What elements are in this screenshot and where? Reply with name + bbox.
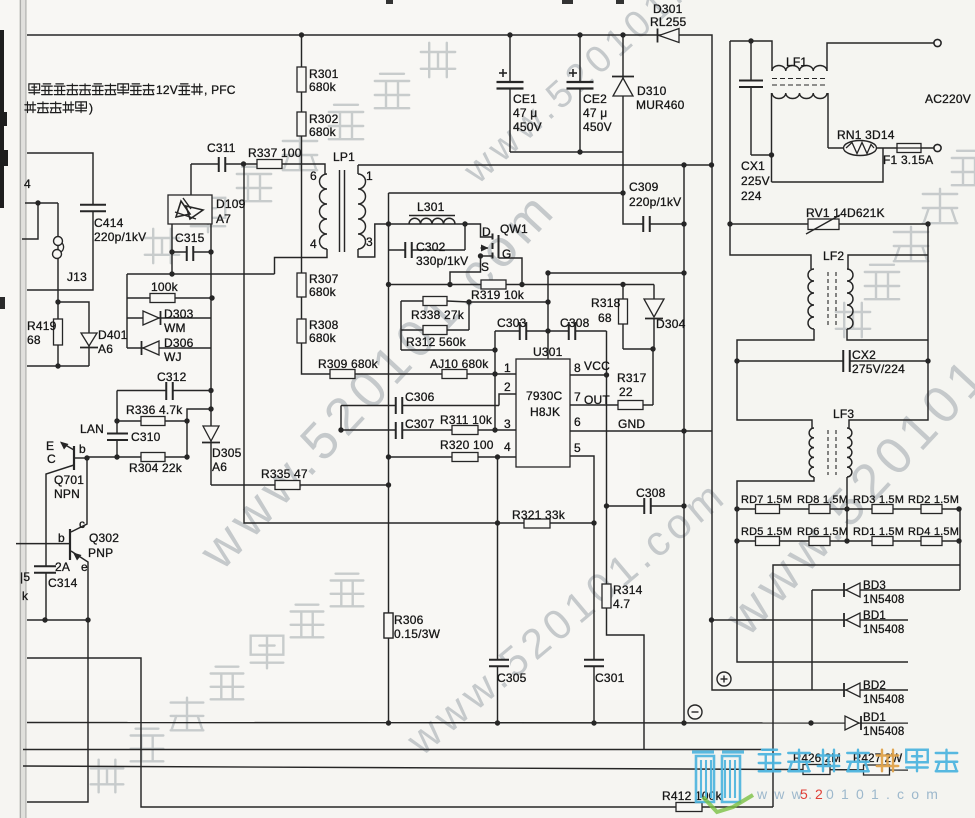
- svg-text:C302: C302: [416, 240, 446, 254]
- svg-text:Q701: Q701: [54, 473, 84, 487]
- svg-text:680k: 680k: [309, 285, 337, 299]
- svg-text:R312 560k: R312 560k: [406, 335, 467, 349]
- svg-text:0.15/3W: 0.15/3W: [394, 627, 441, 641]
- svg-text:RD7 1.5M: RD7 1.5M: [741, 494, 792, 506]
- svg-text:R301: R301: [309, 67, 339, 81]
- svg-text:E: E: [46, 439, 54, 453]
- svg-text:RD4 1.5M: RD4 1.5M: [908, 526, 959, 538]
- svg-text:PNP: PNP: [88, 546, 113, 560]
- svg-text:D303: D303: [164, 307, 194, 321]
- svg-text:AC220V: AC220V: [925, 92, 971, 106]
- svg-text:D401: D401: [98, 328, 128, 342]
- svg-text:A6: A6: [98, 342, 113, 356]
- svg-text:4: 4: [24, 177, 31, 191]
- svg-text:CE2: CE2: [583, 92, 607, 106]
- svg-text:1N5408: 1N5408: [863, 694, 904, 706]
- svg-text:1: 1: [504, 361, 511, 375]
- svg-text:4.7: 4.7: [613, 597, 630, 611]
- svg-text:GND: GND: [618, 417, 645, 431]
- svg-text:8: 8: [574, 361, 581, 375]
- svg-text:D304: D304: [656, 317, 686, 331]
- svg-text:R335 47: R335 47: [261, 467, 308, 481]
- svg-text:WJ: WJ: [164, 350, 182, 364]
- svg-text:68: 68: [27, 333, 41, 347]
- svg-text:QW1: QW1: [500, 222, 528, 236]
- svg-text:C314: C314: [48, 576, 78, 590]
- svg-text:3: 3: [366, 235, 373, 249]
- svg-text:R318: R318: [591, 296, 621, 310]
- svg-text:RD3 1.5M: RD3 1.5M: [853, 494, 904, 506]
- svg-text:4: 4: [310, 237, 317, 251]
- svg-text:47 μ: 47 μ: [513, 106, 537, 120]
- svg-text:LP1: LP1: [333, 150, 355, 164]
- svg-text:F1 3.15A: F1 3.15A: [883, 153, 933, 167]
- svg-text:C307: C307: [405, 417, 435, 431]
- svg-text:450V: 450V: [583, 120, 612, 134]
- svg-text:100k: 100k: [151, 280, 179, 294]
- svg-text:68: 68: [598, 311, 612, 325]
- svg-text:C309: C309: [629, 180, 659, 194]
- svg-text:MUR460: MUR460: [636, 98, 685, 112]
- svg-text:R319 10k: R319 10k: [471, 288, 525, 302]
- svg-text:c: c: [79, 517, 85, 531]
- svg-text:22: 22: [619, 385, 633, 399]
- svg-text:C308: C308: [560, 316, 590, 330]
- svg-text:D: D: [482, 225, 491, 239]
- svg-text:A7: A7: [216, 212, 231, 226]
- svg-text:1N5408: 1N5408: [863, 624, 904, 636]
- svg-text:C310: C310: [131, 430, 161, 444]
- svg-text:R321 33k: R321 33k: [512, 508, 566, 522]
- svg-text:330p/1kV: 330p/1kV: [416, 254, 468, 268]
- svg-text:G: G: [502, 247, 512, 261]
- svg-text:AJ10 680k: AJ10 680k: [430, 357, 489, 371]
- svg-text:D301: D301: [653, 2, 683, 16]
- svg-text:LF2: LF2: [823, 249, 844, 263]
- svg-text:LF3: LF3: [833, 407, 854, 421]
- svg-text:5: 5: [574, 441, 581, 455]
- svg-text:R307: R307: [309, 272, 339, 286]
- svg-text:R336 4.7k: R336 4.7k: [126, 403, 183, 417]
- svg-text:C: C: [47, 452, 56, 466]
- svg-text:R311 10k: R311 10k: [440, 413, 493, 427]
- svg-text:A6: A6: [212, 460, 227, 474]
- svg-text:6: 6: [310, 169, 317, 183]
- svg-text:|5: |5: [20, 570, 30, 584]
- svg-text:450V: 450V: [513, 120, 542, 134]
- svg-text:224: 224: [741, 189, 762, 203]
- svg-text:R317: R317: [617, 371, 647, 385]
- svg-text:220p/1kV: 220p/1kV: [94, 230, 146, 244]
- svg-text:e: e: [81, 560, 88, 574]
- svg-text:R304 22k: R304 22k: [129, 461, 183, 475]
- svg-text:OUT: OUT: [584, 393, 610, 407]
- svg-text:R308: R308: [309, 318, 339, 332]
- svg-text:CX1: CX1: [741, 159, 765, 173]
- svg-text:C301: C301: [595, 671, 625, 685]
- svg-text:RD2 1.5M: RD2 1.5M: [908, 494, 959, 506]
- svg-text:RD6 1.5M: RD6 1.5M: [797, 526, 848, 538]
- svg-text:C308: C308: [636, 486, 666, 500]
- svg-text:RL255: RL255: [650, 15, 686, 29]
- svg-text:3: 3: [504, 417, 511, 431]
- svg-text:U301: U301: [533, 345, 563, 359]
- svg-text:680k: 680k: [309, 125, 337, 139]
- svg-text:R337 100: R337 100: [248, 146, 302, 160]
- svg-text:7: 7: [574, 390, 581, 404]
- svg-text:VCC: VCC: [584, 359, 610, 373]
- svg-text:D109: D109: [216, 197, 246, 211]
- svg-text:6: 6: [574, 415, 581, 429]
- svg-text:1N5408: 1N5408: [863, 726, 904, 738]
- svg-text:C414: C414: [94, 216, 124, 230]
- svg-text:2: 2: [504, 380, 511, 394]
- svg-text:RD8 1.5M: RD8 1.5M: [797, 494, 848, 506]
- svg-text:R306: R306: [394, 613, 424, 627]
- svg-text:4: 4: [504, 440, 511, 454]
- svg-text:R419: R419: [27, 319, 57, 333]
- svg-text:k: k: [22, 589, 29, 603]
- svg-text:LF1: LF1: [786, 55, 807, 69]
- svg-text:R320 100: R320 100: [440, 438, 494, 452]
- svg-text:): ): [89, 101, 93, 115]
- svg-text:BD1: BD1: [863, 610, 886, 622]
- svg-text:0101.com: 0101.com: [826, 786, 945, 802]
- svg-text:WM: WM: [164, 321, 186, 335]
- svg-text:680k: 680k: [309, 331, 337, 345]
- svg-text:R338 27k: R338 27k: [411, 308, 465, 322]
- svg-text:C312: C312: [157, 370, 187, 384]
- svg-text:NPN: NPN: [54, 487, 80, 501]
- svg-text:C315: C315: [175, 231, 205, 245]
- svg-text:b: b: [79, 442, 86, 456]
- svg-text:1: 1: [366, 169, 373, 183]
- svg-text:225V: 225V: [741, 174, 770, 188]
- svg-text:275V/224: 275V/224: [852, 362, 905, 376]
- svg-text:47 μ: 47 μ: [583, 106, 607, 120]
- svg-text:C303: C303: [497, 316, 527, 330]
- svg-text:680k: 680k: [309, 80, 337, 94]
- svg-text:H8JK: H8JK: [530, 405, 560, 419]
- svg-text:D305: D305: [212, 446, 242, 460]
- svg-text:J13: J13: [67, 270, 87, 284]
- svg-text:b: b: [58, 531, 65, 545]
- svg-text:C305: C305: [497, 671, 527, 685]
- svg-text:D306: D306: [164, 336, 194, 350]
- svg-text:RD1 1.5M: RD1 1.5M: [853, 526, 904, 538]
- svg-text:L301: L301: [417, 200, 445, 214]
- svg-text:C311: C311: [207, 141, 236, 155]
- svg-text:CE1: CE1: [513, 92, 537, 106]
- svg-text:, PFC: , PFC: [204, 83, 236, 97]
- svg-text:S: S: [481, 260, 489, 274]
- svg-text:Q302: Q302: [89, 531, 119, 545]
- svg-text:R309 680k: R309 680k: [318, 357, 379, 371]
- svg-text:12V: 12V: [156, 83, 178, 97]
- svg-text:BD2: BD2: [863, 680, 886, 692]
- svg-text:BD1: BD1: [863, 712, 886, 724]
- svg-text:CX2: CX2: [852, 348, 876, 362]
- svg-text:C306: C306: [405, 390, 435, 404]
- svg-text:RN1 3D14: RN1 3D14: [837, 128, 895, 142]
- svg-text:7930C: 7930C: [526, 389, 562, 403]
- svg-text:RV1 14D621K: RV1 14D621K: [806, 206, 885, 220]
- svg-text:1N5408: 1N5408: [863, 594, 904, 606]
- svg-text:RD5 1.5M: RD5 1.5M: [741, 526, 792, 538]
- svg-text:R302: R302: [309, 112, 339, 126]
- svg-text:R314: R314: [613, 583, 643, 597]
- svg-text:D310: D310: [637, 84, 667, 98]
- svg-text:2A: 2A: [55, 560, 70, 574]
- svg-text:LAN: LAN: [80, 422, 104, 436]
- svg-text:220p/1kV: 220p/1kV: [629, 195, 681, 209]
- svg-text:BD3: BD3: [863, 580, 886, 592]
